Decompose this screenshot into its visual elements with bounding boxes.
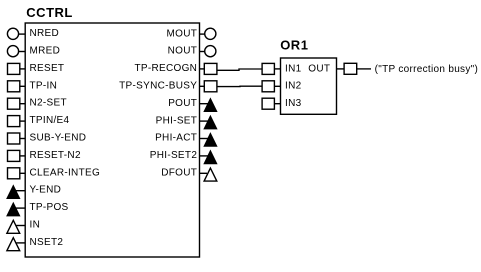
pin IN (input, open triangle symbol) xyxy=(7,220,26,233)
pin Y-END (input, filled triangle symbol) xyxy=(7,186,26,199)
block CCTRL outline xyxy=(25,23,199,257)
block OR1 outline xyxy=(281,58,337,114)
svg-text:TP-IN: TP-IN xyxy=(30,80,58,91)
svg-text:NSET2: NSET2 xyxy=(30,237,64,248)
pin PHI-SET2 (output, filled triangle symbol) xyxy=(200,151,217,164)
svg-text:POUT: POUT xyxy=(168,98,197,109)
svg-text:RESET: RESET xyxy=(30,63,65,74)
svg-text:NRED: NRED xyxy=(30,28,60,39)
pin IN1 of OR1 (square symbol) xyxy=(262,63,280,74)
svg-text:N2-SET: N2-SET xyxy=(30,98,67,109)
pin MOUT (output, circle symbol) xyxy=(200,28,216,39)
svg-text:OUT: OUT xyxy=(308,63,330,74)
svg-text:SUB-Y-END: SUB-Y-END xyxy=(30,133,87,144)
pin POUT (output, filled triangle symbol) xyxy=(200,99,217,112)
pin IN2 of OR1 (square symbol) xyxy=(262,81,280,92)
svg-text:CCTRL: CCTRL xyxy=(26,5,73,20)
svg-text:TP-RECOGN: TP-RECOGN xyxy=(134,63,197,74)
pin RESET-N2 (input, square symbol) xyxy=(8,150,26,161)
pin RESET (input, square symbol) xyxy=(8,63,26,74)
svg-text:PHI-SET2: PHI-SET2 xyxy=(150,150,198,161)
pin TP-POS (input, filled triangle symbol) xyxy=(7,203,26,216)
svg-text:RESET-N2: RESET-N2 xyxy=(30,150,81,161)
pin TP-RECOGN (output, square symbol) xyxy=(200,63,217,74)
svg-text:Y-END: Y-END xyxy=(30,185,62,196)
pin DFOUT (output, open triangle symbol) xyxy=(200,168,217,181)
svg-text:IN3: IN3 xyxy=(285,98,302,109)
pin TP-IN (input, square symbol) xyxy=(8,81,26,92)
svg-text:IN1: IN1 xyxy=(285,63,302,74)
pin MRED (input, circle symbol) xyxy=(7,46,25,57)
svg-text:NOUT: NOUT xyxy=(168,46,198,57)
pin NRED (input, circle symbol) xyxy=(7,28,25,39)
svg-text:MOUT: MOUT xyxy=(167,28,198,39)
svg-text:MRED: MRED xyxy=(30,46,61,57)
svg-text:CLEAR-INTEG: CLEAR-INTEG xyxy=(30,167,101,178)
pin OUT of OR1 (square symbol) xyxy=(337,63,357,74)
pin TP-SYNC-BUSY (output, square symbol) xyxy=(200,81,217,92)
pin IN3 of OR1 (square symbol) xyxy=(262,98,280,109)
svg-text:TPIN/E4: TPIN/E4 xyxy=(30,115,70,126)
svg-text:IN2: IN2 xyxy=(285,81,302,92)
pin PHI-ACT (output, filled triangle symbol) xyxy=(200,133,217,146)
pin PHI-SET (output, filled triangle symbol) xyxy=(200,116,217,129)
svg-text:TP-POS: TP-POS xyxy=(30,202,69,213)
svg-text:OR1: OR1 xyxy=(280,38,308,53)
pin NSET2 (input, open triangle symbol) xyxy=(7,238,26,251)
svg-text:IN: IN xyxy=(30,220,41,231)
pin N2-SET (input, square symbol) xyxy=(8,98,26,109)
svg-text:PHI-SET: PHI-SET xyxy=(156,115,198,126)
svg-text:TP-SYNC-BUSY: TP-SYNC-BUSY xyxy=(119,81,197,92)
pin TPIN/E4 (input, square symbol) xyxy=(8,116,26,127)
pin CLEAR-INTEG (input, square symbol) xyxy=(8,168,26,179)
wire OR1 OUT to net label xyxy=(357,68,371,70)
svg-text:("TP correction busy"): ("TP correction busy") xyxy=(375,64,479,75)
svg-text:DFOUT: DFOUT xyxy=(161,168,197,179)
wire TP-SYNC-BUSY to OR1 IN2 xyxy=(217,85,262,87)
wire TP-RECOGN to OR1 IN1 xyxy=(217,69,262,70)
svg-text:PHI-ACT: PHI-ACT xyxy=(155,133,197,144)
pin NOUT (output, circle symbol) xyxy=(200,46,216,57)
pin SUB-Y-END (input, square symbol) xyxy=(8,133,26,144)
